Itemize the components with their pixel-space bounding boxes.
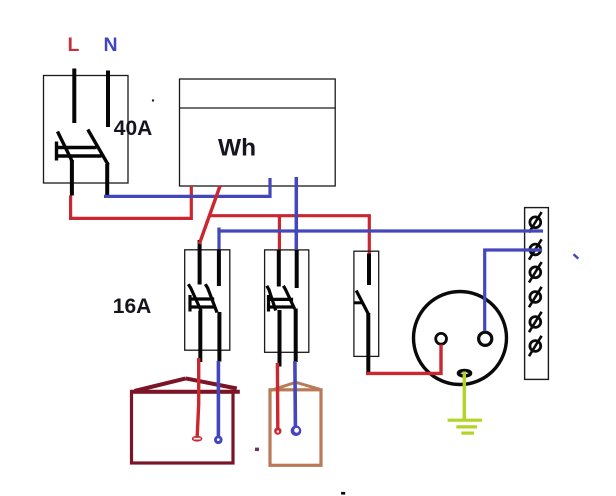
breaker U1 pole L lead [72,69,76,124]
breaker Q2 16A box [265,250,309,352]
svg-text:Wh: Wh [218,135,256,162]
breaker U1 contact L [58,132,73,163]
wire end lug blue H1 [214,436,223,445]
wire N blue breaker Q1 to terminal strip [217,228,220,251]
socket X1 body circle [414,292,507,385]
socket X1 pin N [479,332,492,345]
svg-text:L: L [68,34,80,56]
breaker U1 pole N lead [106,71,110,128]
terminal TB1 screw 1 [529,212,542,232]
terminal TB1 screw 4 [529,287,542,307]
wire end lug blue H2 [291,426,302,437]
terminal TB1 screw 5 [529,312,542,332]
terminal TB1 screw 6 [529,336,542,356]
meter Wh box [180,79,336,186]
breaker Q2 pole N lead [295,250,299,289]
socket X1 earth slot [459,371,471,376]
breaker U1 contact N [88,130,109,166]
breaker Q2 pole L lead [277,251,281,287]
terminal TB1 screw 2 [529,239,542,259]
load house H1 roof right [186,378,237,388]
wire N blue to house H1 [217,361,221,436]
breaker U1 left tick [55,142,58,161]
wire end lug red H1 [192,436,203,442]
breaker U1 pole L output lead [70,160,74,196]
breaker Q2 linkage bar upper [267,298,293,301]
breaker Q2 pole N output lead [294,309,298,363]
breaker Q3 latch tick [354,301,363,304]
stray dot near 40A box [152,99,154,101]
stray black dot bottom [341,492,345,495]
breaker Q1 left tick [188,295,191,312]
wire end lug red H2 [274,427,281,434]
breaker Q1 16A box [185,250,230,350]
breaker Q1 linkage bar lower [190,305,216,308]
meter Wh inner line [180,107,336,109]
stray blue tick right [574,254,579,258]
svg-text:N: N [104,34,118,56]
breaker U1 pole N output lead [105,164,109,196]
load house H1 box [132,392,234,463]
breaker Q3 pole lead [367,254,371,286]
wire L red tap to breaker Q3 [210,216,370,254]
breaker Q1 pole L lead [198,240,202,285]
breaker U1 linkage bar lower [58,154,102,157]
breaker Q1 pole N output lead [217,312,221,362]
breaker U1 linkage bar upper [56,146,97,149]
svg-text:40A: 40A [114,117,153,140]
breaker Q3 contact [356,291,368,315]
wire N blue 40A to Wh [104,178,270,196]
wire N blue socket to terminal strip [485,250,542,331]
wire L red breaker Q3 to socket pin [366,345,441,374]
breaker U1 40A box [44,76,129,184]
wire N blue to house H2 [293,361,297,426]
wire L red Wh to breaker Q1 (diagonal) [199,186,220,244]
breaker Q2 contact N [283,286,294,309]
breaker Q1 pole L output lead [198,311,202,363]
wire N blue Wh to breaker Q2 [295,177,299,249]
wire N blue horizontal to terminal strip [217,229,543,232]
terminal TB1 screw 3 [529,262,542,282]
svg-text:16A: 16A [113,295,152,318]
terminal strip TB1 box [525,208,549,380]
wire L red to house H1 [197,358,199,436]
breaker Q1 linkage bar upper [189,297,214,300]
load house H1 roof left [135,378,186,391]
wire L red to house H2 [276,363,280,428]
wire L red drop to breaker Q2 [278,216,281,251]
breaker Q2 contact L [267,286,276,311]
breaker Q1 contact L [188,284,201,311]
breaker Q3 16A box [354,251,379,356]
wire PE green earth lead [463,372,466,421]
breaker Q1 pole N lead [217,250,221,287]
load house H2 box [270,390,321,466]
load house H1 roof base [130,390,240,394]
breaker Q2 left tick [267,295,270,312]
wire L red 40A to Wh [71,186,192,218]
socket X1 pin L [436,333,447,344]
stray purple dot [255,448,259,451]
ground symbol bar 3 [461,432,474,435]
breaker Q2 linkage bar lower [269,305,295,308]
breaker Q2 pole L output lead [278,310,282,367]
ground symbol bar 1 [448,419,483,422]
load house H2 roof [270,382,319,390]
breaker Q3 output lead [366,313,370,374]
breaker Q1 contact N [205,284,217,312]
ground symbol bar 2 [456,425,477,428]
